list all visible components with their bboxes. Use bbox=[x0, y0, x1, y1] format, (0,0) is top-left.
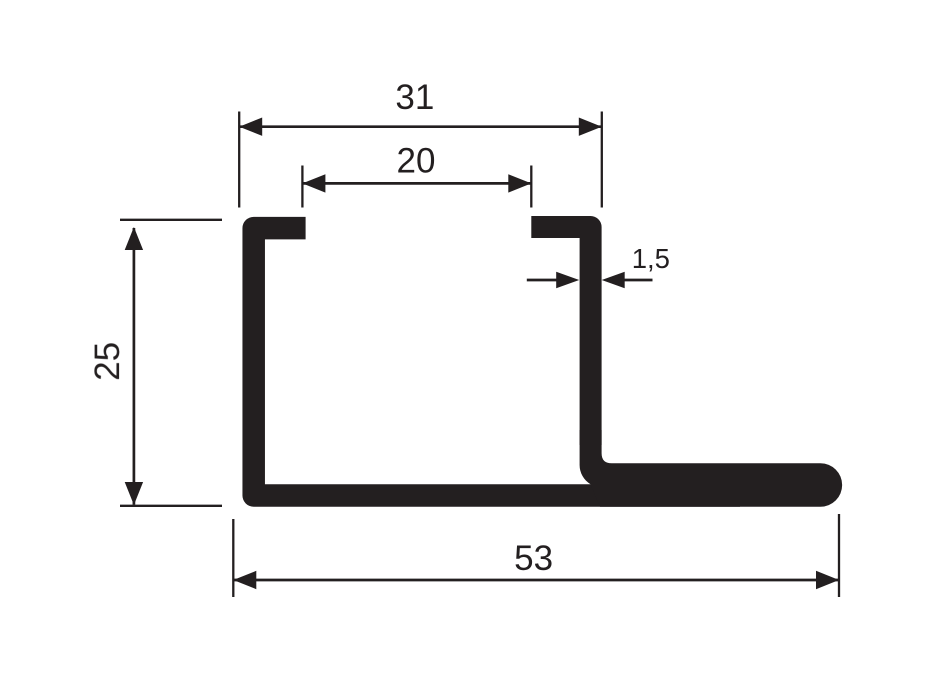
svg-text:20: 20 bbox=[397, 142, 436, 181]
svg-text:25: 25 bbox=[88, 342, 127, 381]
svg-text:53: 53 bbox=[514, 539, 553, 578]
svg-text:31: 31 bbox=[395, 78, 434, 117]
svg-text:1,5: 1,5 bbox=[632, 243, 670, 274]
